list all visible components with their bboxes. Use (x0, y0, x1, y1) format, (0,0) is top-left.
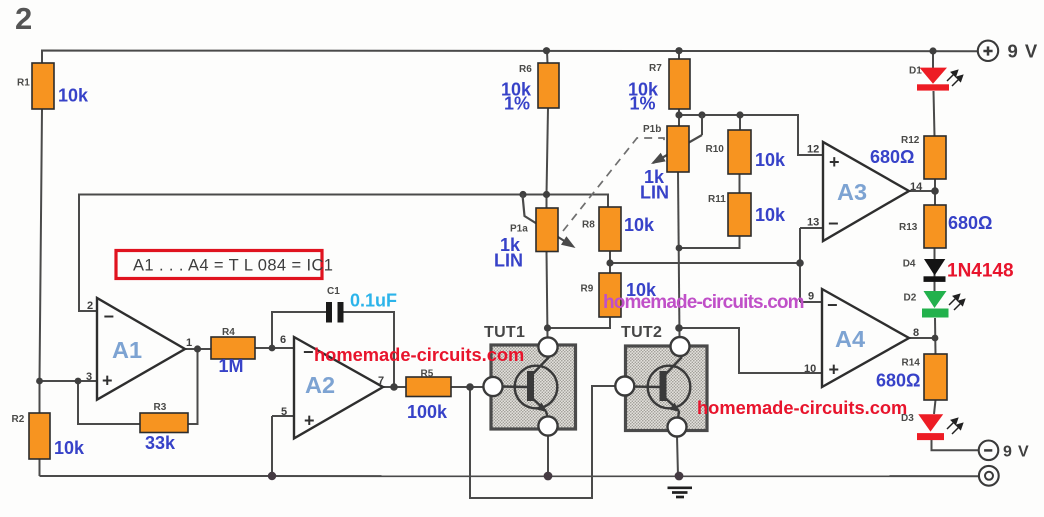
svg-text:−: − (104, 307, 115, 327)
svg-text:10: 10 (804, 363, 816, 375)
svg-text:8: 8 (913, 327, 919, 339)
svg-text:R10: R10 (706, 144, 725, 155)
svg-text:R7: R7 (649, 63, 662, 74)
svg-text:R14: R14 (902, 358, 921, 369)
svg-text:R13: R13 (899, 222, 918, 233)
svg-text:LIN: LIN (640, 183, 669, 203)
svg-text:+: + (829, 360, 840, 380)
svg-text:−: − (828, 214, 839, 234)
svg-text:+: + (102, 371, 113, 391)
svg-text:R3: R3 (154, 402, 167, 413)
svg-text:R4: R4 (222, 327, 235, 338)
svg-text:1%: 1% (504, 94, 530, 114)
svg-text:−: − (827, 295, 838, 315)
svg-text:A4: A4 (835, 326, 865, 352)
svg-text:2: 2 (87, 300, 93, 312)
svg-text:13: 13 (807, 217, 819, 229)
svg-text:1: 1 (186, 337, 192, 349)
svg-text:homemade-circuits.com: homemade-circuits.com (697, 397, 907, 418)
svg-text:1M: 1M (219, 356, 244, 376)
svg-text:R6: R6 (519, 64, 532, 75)
svg-text:1N4148: 1N4148 (947, 261, 1014, 282)
svg-text:A2: A2 (305, 372, 335, 398)
svg-text:R11: R11 (708, 194, 726, 205)
svg-text:homemade-circuits.com: homemade-circuits.com (603, 292, 804, 313)
svg-text:14: 14 (910, 181, 923, 193)
svg-text:5: 5 (281, 406, 287, 418)
svg-text:D4: D4 (903, 259, 916, 270)
svg-text:R8: R8 (582, 220, 595, 231)
svg-text:9 V: 9 V (1008, 41, 1039, 62)
svg-text:680Ω: 680Ω (870, 147, 914, 167)
svg-text:A1 . . . A4 = T L 084 = IC1: A1 . . . A4 = T L 084 = IC1 (133, 257, 333, 275)
svg-text:LIN: LIN (494, 251, 523, 271)
svg-text:P1b: P1b (643, 124, 661, 135)
svg-text:1%: 1% (630, 94, 656, 114)
svg-text:10k: 10k (58, 86, 89, 106)
svg-text:R5: R5 (421, 369, 434, 380)
svg-text:+: + (304, 411, 315, 431)
svg-text:10k: 10k (755, 205, 786, 225)
svg-text:3: 3 (86, 371, 92, 383)
svg-text:A3: A3 (837, 179, 867, 205)
svg-text:P1a: P1a (510, 224, 528, 235)
svg-text:+: + (829, 152, 840, 172)
svg-text:12: 12 (807, 144, 819, 156)
svg-text:6: 6 (280, 334, 286, 346)
svg-text:D1: D1 (909, 66, 922, 77)
svg-text:A1: A1 (112, 337, 142, 363)
svg-text:680Ω: 680Ω (876, 371, 920, 391)
svg-text:7: 7 (378, 375, 384, 387)
svg-text:10k: 10k (54, 438, 85, 458)
svg-text:R1: R1 (17, 78, 30, 89)
svg-text:homemade-circuits.com: homemade-circuits.com (314, 344, 524, 365)
svg-text:C1: C1 (327, 286, 340, 297)
svg-text:−: − (303, 342, 314, 362)
svg-text:100k: 100k (407, 402, 448, 422)
svg-text:10k: 10k (624, 215, 655, 235)
svg-text:9 V: 9 V (1003, 443, 1029, 460)
svg-text:0.1uF: 0.1uF (350, 291, 397, 311)
svg-text:2: 2 (15, 1, 32, 36)
svg-text:680Ω: 680Ω (948, 213, 992, 233)
svg-text:33k: 33k (145, 433, 176, 453)
svg-text:10k: 10k (755, 150, 786, 170)
svg-text:R9: R9 (581, 284, 594, 295)
svg-text:9: 9 (808, 291, 814, 303)
svg-text:TUT1: TUT1 (484, 324, 525, 341)
svg-text:TUT2: TUT2 (621, 324, 662, 341)
svg-text:R12: R12 (901, 135, 920, 146)
svg-text:R2: R2 (12, 414, 25, 425)
svg-text:D2: D2 (904, 293, 917, 304)
